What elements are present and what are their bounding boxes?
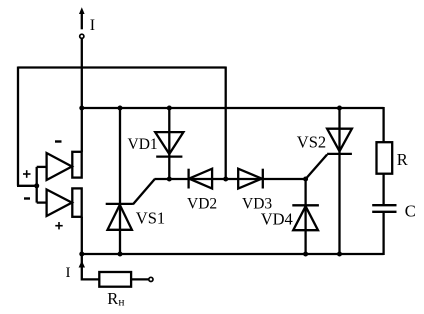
svg-text:VS1: VS1 [136, 209, 165, 228]
current arrow I (bottom) [79, 261, 85, 268]
svg-text:I: I [90, 17, 95, 34]
wire right rail top [382, 107, 384, 142]
capacitor C [372, 205, 396, 212]
svg-text:VD1: VD1 [128, 136, 158, 153]
junction [79, 106, 84, 111]
junction [167, 177, 172, 182]
wire bottom-left branch [82, 254, 100, 279]
wire to upper control triangle [37, 166, 47, 168]
label plus (upper) [23, 170, 31, 178]
junction [167, 106, 172, 111]
control triangle upper [47, 153, 72, 180]
wire control input vertical [36, 167, 38, 203]
svg-text:VD2: VD2 [187, 196, 217, 213]
thyristor VS2 [327, 129, 352, 154]
svg-text:I: I [66, 265, 71, 281]
junction [303, 177, 308, 182]
wire VD1 branch [168, 108, 170, 179]
current arrow I (top) [79, 7, 85, 29]
wire left vertical [17, 67, 19, 186]
wire to bottom terminal [131, 278, 148, 280]
junction [223, 177, 228, 182]
wire middle horizontal [155, 178, 306, 180]
resistor Rn (load) [99, 272, 131, 287]
resistor R [377, 142, 393, 174]
diode VD2 [189, 169, 213, 189]
junction [79, 252, 84, 257]
wire to lower control triangle [37, 201, 47, 203]
junction [118, 106, 123, 111]
diode VD3 [238, 169, 263, 189]
svg-text:VD4: VD4 [261, 210, 293, 229]
wire second horizontal [82, 107, 384, 109]
wire bottom horizontal [82, 253, 384, 255]
control triangle lower [47, 190, 72, 217]
wire VS2 branch [338, 108, 340, 254]
svg-text:C: C [405, 202, 416, 221]
junction [303, 252, 308, 257]
svg-text:VS2: VS2 [297, 132, 326, 151]
wire below C [382, 212, 384, 255]
terminal (bottom) [149, 277, 153, 281]
control box upper [72, 152, 81, 178]
label plus (lower) [55, 222, 62, 229]
terminal (top) [80, 34, 84, 38]
junction [34, 183, 39, 188]
junction [337, 106, 342, 111]
control box lower [72, 188, 81, 216]
wire top-right drop [225, 67, 227, 180]
label minus (lower) [24, 197, 30, 199]
label minus (upper) [55, 140, 62, 142]
diode VD1 [155, 132, 183, 157]
wire VS1 branch [119, 108, 121, 254]
junction [118, 252, 123, 257]
svg-text:Rн: Rн [107, 289, 124, 309]
wire top horizontal [18, 66, 226, 68]
wire VS1 gate [133, 179, 155, 204]
junction [337, 252, 342, 257]
svg-text:R: R [397, 150, 408, 169]
wire VS2 gate [306, 155, 328, 180]
wire main vertical from top terminal to upper control box [81, 39, 83, 152]
thyristor VS1 [106, 204, 133, 230]
diode VD4 [292, 205, 319, 230]
wire between R and C [382, 174, 384, 206]
wire VD4 branch [304, 179, 306, 254]
wire left bottom horizontal [17, 185, 37, 187]
wire from lower control box down [81, 217, 83, 255]
